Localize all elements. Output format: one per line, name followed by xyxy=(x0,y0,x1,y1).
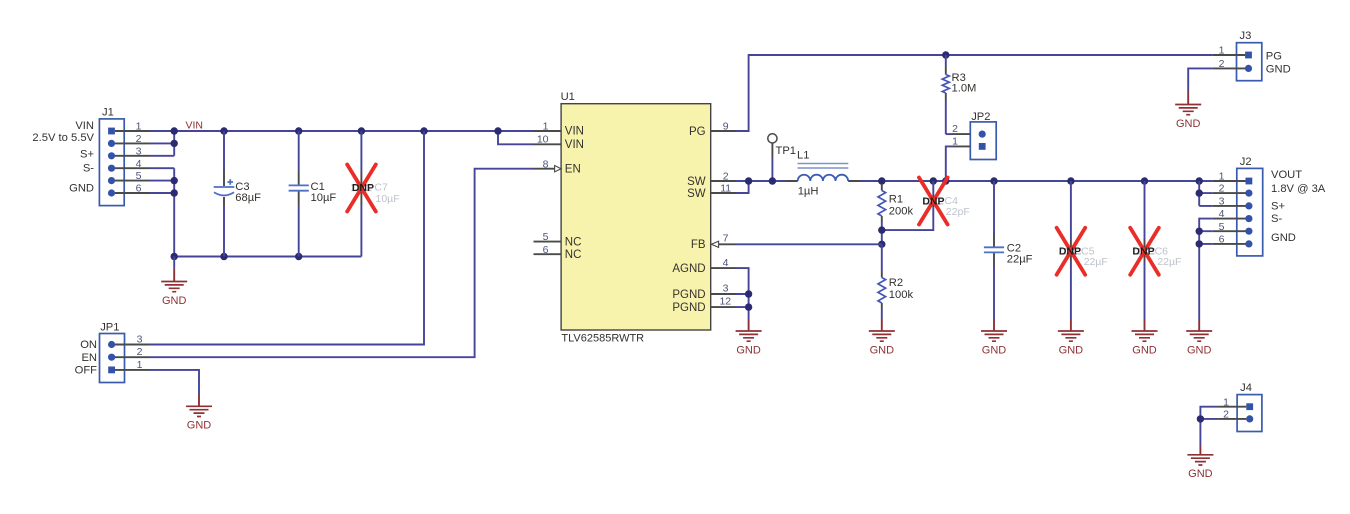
wire SW pins to output rail xyxy=(736,181,786,193)
svg-text:4: 4 xyxy=(723,257,729,269)
svg-text:1: 1 xyxy=(1223,396,1229,408)
svg-text:22µF: 22µF xyxy=(1157,256,1181,268)
svg-text:200k: 200k xyxy=(889,206,914,218)
svg-text:GND: GND xyxy=(69,182,94,194)
ground under U1 xyxy=(736,319,762,356)
test point TP1 xyxy=(768,134,796,181)
svg-text:PG: PG xyxy=(1266,51,1282,63)
svg-text:2: 2 xyxy=(1223,409,1229,421)
svg-text:22µF: 22µF xyxy=(1007,254,1033,266)
connector JP1 xyxy=(100,321,151,382)
svg-text:2: 2 xyxy=(723,171,729,183)
U1 FB output arrow xyxy=(711,241,718,247)
svg-text:9: 9 xyxy=(723,121,729,133)
svg-text:DNP: DNP xyxy=(1132,246,1154,258)
svg-text:1µH: 1µH xyxy=(798,185,819,197)
svg-text:S-: S- xyxy=(1271,213,1282,225)
junction dot J4 xyxy=(1197,415,1204,422)
svg-text:DNP: DNP xyxy=(352,182,374,194)
svg-text:VIN: VIN xyxy=(565,126,584,138)
junction dot J2 pin2 xyxy=(1196,189,1203,196)
svg-text:DNP: DNP xyxy=(922,195,944,207)
wire FB to divider xyxy=(736,243,882,245)
svg-text:1: 1 xyxy=(1219,45,1225,57)
wire AGND/PGND to ground xyxy=(736,268,749,319)
svg-text:ON: ON xyxy=(80,339,97,351)
svg-text:S+: S+ xyxy=(1271,201,1285,213)
junction dot SW tie xyxy=(745,177,752,184)
svg-text:100k: 100k xyxy=(889,289,914,301)
capacitor C3 xyxy=(214,131,261,257)
wire J2 pins 2,3 tie to VOUT xyxy=(1199,181,1213,206)
junction dots J1 ground tie xyxy=(171,177,178,197)
svg-text:S+: S+ xyxy=(80,149,94,161)
connector J3 xyxy=(1213,30,1262,80)
svg-text:GND: GND xyxy=(1271,232,1296,244)
svg-text:VIN: VIN xyxy=(75,120,94,132)
svg-text:2.5V to 5.5V: 2.5V to 5.5V xyxy=(32,132,94,144)
svg-text:NC: NC xyxy=(565,249,582,261)
svg-text:10µF: 10µF xyxy=(311,192,337,204)
junction dot TP1 xyxy=(769,177,776,184)
svg-text:2: 2 xyxy=(1219,58,1225,70)
junction dots VOUT rail xyxy=(878,177,1203,184)
connector J1 xyxy=(99,106,150,205)
ground under C6 xyxy=(1132,331,1158,356)
wire JP2 pin2 to R3 xyxy=(946,133,952,135)
svg-text:1.8V @ 3A: 1.8V @ 3A xyxy=(1271,183,1326,195)
U1 pin names xyxy=(565,126,706,314)
svg-text:J2: J2 xyxy=(1240,156,1252,168)
svg-text:S-: S- xyxy=(83,162,94,174)
J2 port labels xyxy=(1271,169,1326,244)
capacitor C7 (DNP) xyxy=(347,131,399,257)
J3 port labels xyxy=(1266,51,1291,76)
U1 left pin stubs xyxy=(534,131,562,254)
ground under J1 xyxy=(161,257,187,307)
U1 right pin stubs xyxy=(711,131,736,307)
svg-text:GND: GND xyxy=(1266,63,1291,75)
wire JP1 pin3 (ON) to VIN rail xyxy=(150,131,424,345)
svg-text:U1: U1 xyxy=(561,91,575,103)
wire VIN elbow to U1 pin 10 xyxy=(498,131,534,144)
svg-text:1.0M: 1.0M xyxy=(952,83,977,95)
svg-text:6: 6 xyxy=(1219,234,1225,246)
wire VOUT rail xyxy=(882,180,1213,182)
ground under C2 xyxy=(981,331,1007,356)
J4 pin numbers xyxy=(1223,396,1229,420)
J3 pin numbers xyxy=(1219,45,1225,70)
J1 port labels xyxy=(32,120,94,195)
svg-text:DNP: DNP xyxy=(1059,246,1081,258)
ground under J2 xyxy=(1186,319,1212,356)
junction dots PGND xyxy=(745,290,752,311)
capacitor C1 xyxy=(289,131,337,257)
svg-text:1: 1 xyxy=(137,359,143,371)
svg-text:FB: FB xyxy=(691,239,706,251)
svg-text:J4: J4 xyxy=(1240,382,1252,394)
svg-text:68µF: 68µF xyxy=(235,192,261,204)
svg-text:1: 1 xyxy=(952,136,958,148)
svg-text:VOUT: VOUT xyxy=(1271,169,1302,181)
svg-text:VIN: VIN xyxy=(565,139,584,151)
svg-text:10: 10 xyxy=(537,134,549,146)
svg-text:1: 1 xyxy=(543,121,549,133)
capacitor C6 (DNP) xyxy=(1130,181,1181,331)
U1 pin numbers xyxy=(537,121,731,308)
junction dots FB node xyxy=(878,226,885,248)
resistor R3 xyxy=(942,55,976,134)
ground under C5 xyxy=(1058,331,1084,356)
connector J4 xyxy=(1218,382,1262,431)
J1 pin numbers xyxy=(136,121,142,195)
connector JP2 xyxy=(952,111,996,159)
wire J3 pin2 to ground xyxy=(1188,68,1213,104)
svg-text:22pF: 22pF xyxy=(946,206,970,218)
svg-text:3: 3 xyxy=(1219,196,1225,208)
svg-text:J1: J1 xyxy=(102,106,114,118)
svg-text:PG: PG xyxy=(689,126,706,138)
svg-text:JP1: JP1 xyxy=(100,321,119,333)
svg-text:4: 4 xyxy=(136,158,142,170)
capacitor C4 (DNP) xyxy=(882,178,970,231)
svg-text:J3: J3 xyxy=(1240,30,1252,42)
junction dots J2 ground tie xyxy=(1196,228,1203,248)
svg-text:2: 2 xyxy=(952,123,958,135)
svg-text:L1: L1 xyxy=(797,150,809,162)
junction dots input ground rail xyxy=(171,253,303,260)
junction dots VIN rail xyxy=(171,127,502,147)
svg-text:EN: EN xyxy=(81,352,97,364)
wire JP1 pin1 (OFF) to ground xyxy=(150,370,199,406)
ground under J4 xyxy=(1187,446,1213,480)
ground under J3 xyxy=(1175,105,1201,130)
connector J2 xyxy=(1213,156,1263,256)
resistor R2 xyxy=(878,244,913,331)
svg-text:PGND: PGND xyxy=(672,289,705,301)
capacitor C2 xyxy=(984,181,1033,331)
resistor R1 xyxy=(878,184,913,244)
wire input ground rail xyxy=(174,256,361,258)
svg-text:SW: SW xyxy=(687,188,706,200)
svg-text:1: 1 xyxy=(136,121,142,133)
svg-text:R2: R2 xyxy=(889,277,903,289)
wire J1 pin1 to VIN rail xyxy=(150,130,174,132)
svg-text:AGND: AGND xyxy=(672,263,705,275)
wire J1 pins 2,3 tie to VIN xyxy=(150,131,174,156)
svg-text:PGND: PGND xyxy=(672,302,705,314)
svg-text:6: 6 xyxy=(136,183,142,195)
svg-text:2: 2 xyxy=(136,133,142,145)
wire J1 pins 4,5,6 tie to ground rail xyxy=(150,168,174,256)
wire JP2 pin1 to VOUT rail xyxy=(946,146,952,181)
svg-text:EN: EN xyxy=(565,164,581,176)
svg-text:TLV62585RWTR: TLV62585RWTR xyxy=(561,333,644,345)
J2 pin numbers xyxy=(1219,171,1225,246)
svg-text:10µF: 10µF xyxy=(376,193,400,205)
svg-text:3: 3 xyxy=(723,283,729,295)
svg-text:5: 5 xyxy=(136,170,142,182)
wire J4 pins 1,2 tie to ground xyxy=(1200,407,1218,446)
ground under JP1 xyxy=(186,406,212,431)
wire JP1 pin2 (EN) to U1 EN xyxy=(150,169,534,358)
svg-text:OFF: OFF xyxy=(75,365,98,377)
wire VIN rail xyxy=(174,130,533,132)
svg-text:4: 4 xyxy=(1219,208,1225,220)
svg-text:1: 1 xyxy=(1219,171,1225,183)
inductor L1 xyxy=(786,150,882,198)
svg-text:C7: C7 xyxy=(374,181,388,193)
svg-text:3: 3 xyxy=(137,333,143,345)
svg-text:VIN: VIN xyxy=(186,119,204,131)
op-amp U1 TLV62585RWTR xyxy=(561,91,711,344)
capacitor C5 (DNP) xyxy=(1057,181,1108,331)
svg-text:6: 6 xyxy=(543,244,549,256)
svg-text:SW: SW xyxy=(687,176,706,188)
JP1 pin numbers xyxy=(137,333,143,371)
svg-text:2: 2 xyxy=(137,346,143,358)
svg-text:8: 8 xyxy=(543,158,549,170)
svg-text:NC: NC xyxy=(565,237,582,249)
svg-text:3: 3 xyxy=(136,145,142,157)
svg-text:11: 11 xyxy=(720,183,731,195)
JP1 port labels xyxy=(75,339,98,376)
svg-text:22µF: 22µF xyxy=(1084,256,1108,268)
svg-text:R1: R1 xyxy=(889,194,903,206)
svg-text:7: 7 xyxy=(723,232,729,244)
ground under R2 xyxy=(869,331,895,356)
svg-text:5: 5 xyxy=(543,231,549,243)
svg-text:TP1: TP1 xyxy=(776,145,797,157)
wire PG pin9 to top rail xyxy=(736,55,1213,131)
svg-text:12: 12 xyxy=(719,295,731,307)
U1 EN input arrow xyxy=(555,166,562,172)
JP2 pin numbers xyxy=(952,123,958,147)
svg-text:5: 5 xyxy=(1219,221,1225,233)
svg-text:2: 2 xyxy=(1219,183,1225,195)
junction dot PG/R3 xyxy=(942,51,949,58)
wire J2 pins 4,5,6 tie to ground xyxy=(1199,219,1213,319)
